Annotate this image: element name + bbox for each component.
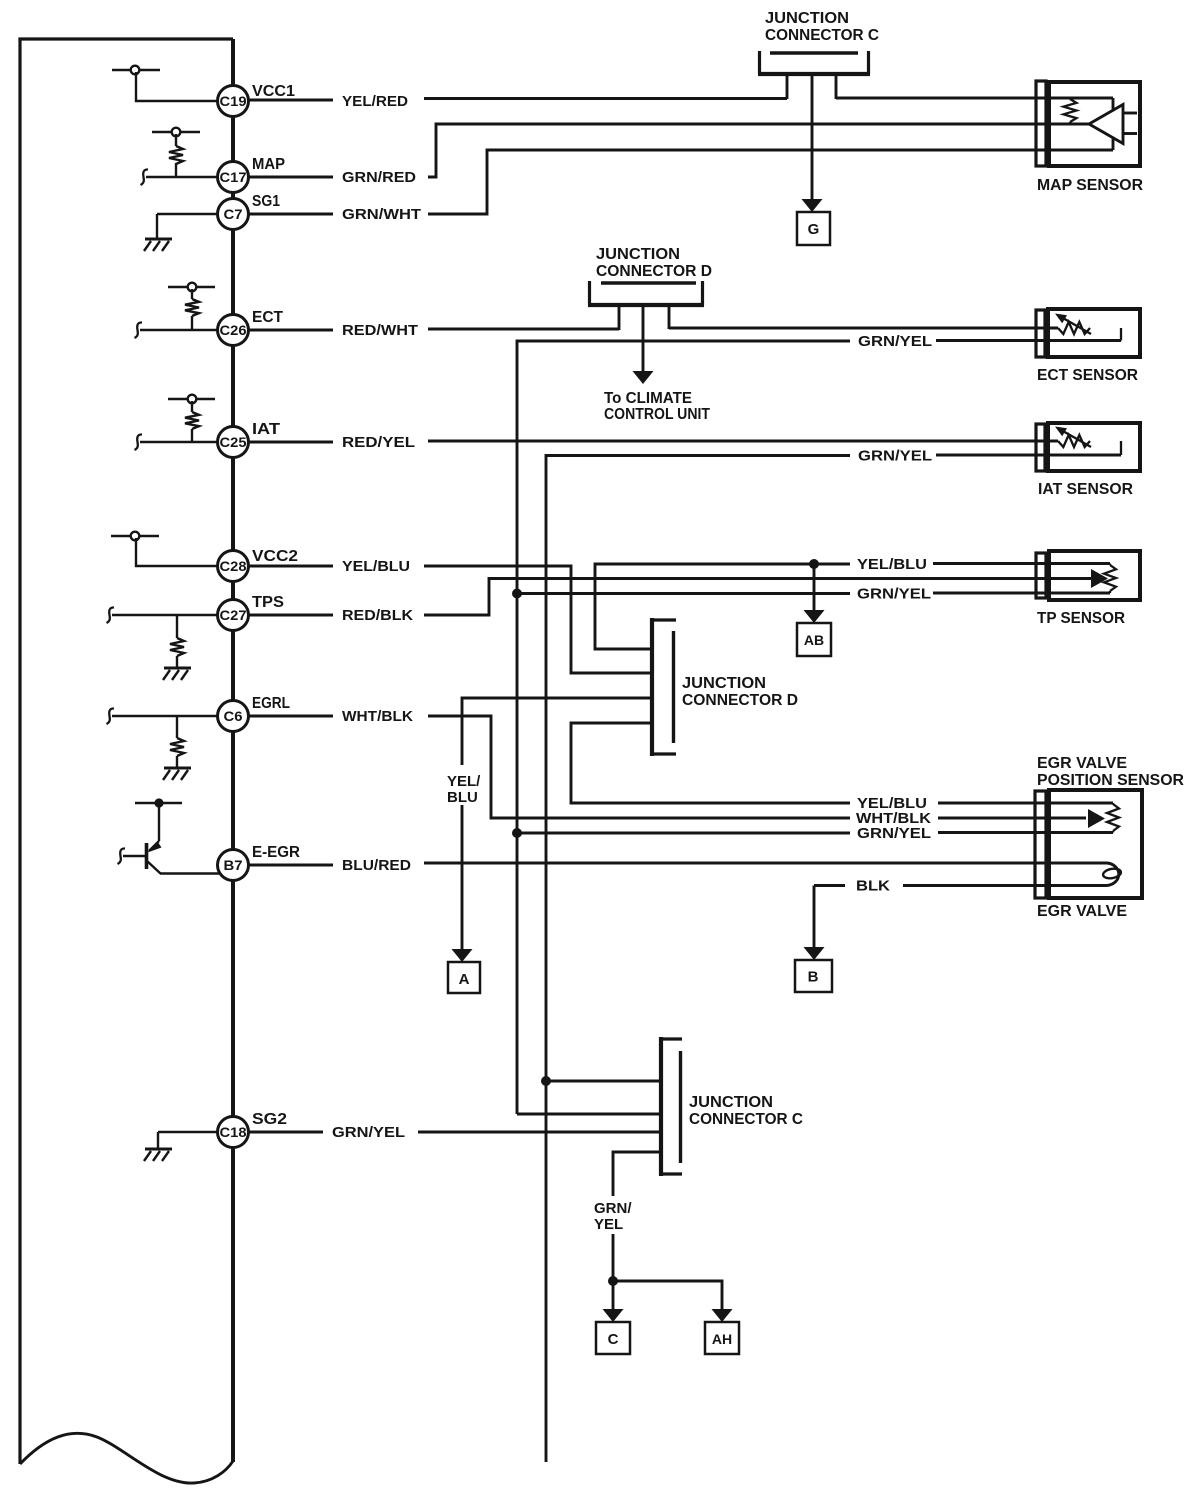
- svg-text:TPS: TPS: [252, 594, 284, 611]
- wire label RED/WHT: [342, 322, 418, 339]
- svg-text:C17: C17: [220, 170, 247, 185]
- wire hook IAT: [135, 434, 143, 450]
- TP sensor label: [1037, 610, 1125, 627]
- connector box C: [596, 1322, 630, 1354]
- svg-text:To CLIMATE: To CLIMATE: [604, 390, 692, 407]
- junction connector D (middle) symbol: [652, 618, 676, 756]
- wire Q1 collector: [158, 803, 160, 841]
- svg-text:ECT: ECT: [252, 309, 284, 326]
- svg-text:C27: C27: [220, 608, 247, 623]
- wire hook Q1 base: [118, 848, 126, 864]
- svg-text:TP SENSOR: TP SENSOR: [1037, 610, 1125, 627]
- wire GRN/YEL junction connector C to splice: [613, 1152, 661, 1196]
- thermistor in IAT sensor: [1055, 427, 1121, 456]
- wire GRN/YEL branch into junction connector C: [517, 1113, 661, 1116]
- wire GRN/YEL to ECT sensor after label: [936, 339, 1121, 342]
- pin label IAT: [252, 421, 281, 438]
- wire YEL/BLU to EGR position sensor after label: [938, 802, 1113, 805]
- wire junction connector C to G: [811, 74, 814, 199]
- svg-text:EGR VALVE: EGR VALVE: [1037, 755, 1127, 772]
- svg-text:GRN/YEL: GRN/YEL: [858, 333, 932, 350]
- junction connector D (middle) label: [682, 675, 798, 709]
- EGR position sensor wiper arrow: [1088, 809, 1105, 828]
- wire RED/BLK label to TP sensor: [424, 579, 1091, 616]
- svg-text:VCC2: VCC2: [252, 548, 298, 565]
- EGR valve box: [1049, 790, 1142, 898]
- wire SG2 to ground: [158, 1132, 217, 1149]
- svg-text:C19: C19: [220, 94, 247, 109]
- thermistor in ECT sensor: [1055, 314, 1121, 341]
- connector box A: [448, 962, 480, 993]
- svg-text:GRN/YEL: GRN/YEL: [332, 1124, 405, 1141]
- wire hook TPS: [107, 607, 115, 623]
- wire RED/YEL label to IAT sensor: [428, 440, 1058, 443]
- ECM pin bus (wire): [231, 39, 235, 1462]
- ECT sensor label: [1037, 367, 1138, 384]
- ECM pin C17: [218, 162, 249, 193]
- pin stub junction connector C right: [835, 74, 838, 99]
- svg-text:GRN/YEL: GRN/YEL: [857, 586, 931, 603]
- wire RED/YEL C25 to label: [249, 441, 334, 444]
- connector box G: [797, 212, 830, 245]
- svg-text:C: C: [608, 1331, 619, 1348]
- label GRN/YEL drop wire: [594, 1200, 632, 1233]
- EGR valve solenoid: [1102, 863, 1121, 886]
- wire label GRN/YEL right side 1: [858, 448, 932, 465]
- wire label YEL/BLU right side 2: [857, 556, 927, 573]
- wire YEL/RED junction connector C to MAP sensor: [836, 98, 1113, 111]
- wire GRN/YEL to TP sensor after label: [933, 592, 1110, 595]
- svg-text:CONNECTOR C: CONNECTOR C: [765, 27, 879, 44]
- svg-text:E-EGR: E-EGR: [252, 844, 300, 861]
- wire YEL/RED C19 to label: [249, 99, 334, 102]
- svg-text:YEL/BLU: YEL/BLU: [342, 558, 410, 575]
- wire BLU/RED B7 to label: [249, 864, 334, 867]
- svg-text:GRN/YEL: GRN/YEL: [857, 825, 931, 842]
- wire hook MAP: [141, 169, 149, 185]
- svg-text:AH: AH: [712, 1331, 732, 1347]
- arrow to AB: [804, 610, 825, 623]
- svg-text:POSITION SENSOR: POSITION SENSOR: [1037, 772, 1184, 789]
- svg-text:YEL/RED: YEL/RED: [342, 93, 408, 110]
- arrow to C: [603, 1309, 624, 1322]
- wire BLK drop to B: [813, 886, 816, 948]
- ground SG2: [144, 1149, 172, 1161]
- op-amp in MAP sensor: [1089, 105, 1123, 144]
- wire YEL/BLU drop to A (after label): [461, 805, 464, 949]
- MAP sensor label: [1037, 177, 1143, 194]
- wire label GRN/YEL right side 6: [857, 825, 931, 842]
- wire hook ECT: [135, 322, 143, 338]
- label to climate control unit: [604, 390, 710, 423]
- node YEL/BLU tap to AB: [809, 559, 819, 610]
- resistor TPS pull-down: [170, 615, 184, 668]
- wire label GRN/WHT: [342, 206, 421, 223]
- wire GRN/WHT label to MAP sensor: [428, 138, 1113, 214]
- wire label RED/BLK: [342, 607, 413, 624]
- wire GRN/YEL label to junction connector C: [418, 1131, 661, 1134]
- svg-text:SG2: SG2: [252, 1111, 287, 1128]
- wire MAP hook to C17: [146, 176, 217, 178]
- svg-text:YEL: YEL: [594, 1216, 623, 1233]
- pin label VCC2: [252, 548, 298, 565]
- ECM pin C26: [218, 315, 249, 346]
- connector box B: [795, 960, 832, 992]
- wire BLU/RED label to EGR valve: [424, 862, 1107, 865]
- svg-text:CONNECTOR C: CONNECTOR C: [689, 1111, 803, 1128]
- wire label GRN/RED: [342, 169, 416, 186]
- wire GRN/YEL to C: [612, 1281, 615, 1309]
- wire YEL/BLU junction connector D to A drop: [462, 698, 652, 765]
- arrow to B: [804, 947, 825, 960]
- svg-text:AB: AB: [804, 632, 824, 648]
- wire RED/BLK C27 to label: [249, 614, 334, 617]
- ECM pin B7: [218, 850, 249, 881]
- svg-text:EGRL: EGRL: [252, 695, 290, 712]
- pin label VCC1: [252, 83, 295, 100]
- EGR valve connector bracket: [1035, 791, 1046, 898]
- ground EGRL resistor: [163, 768, 191, 780]
- ECM pin C27: [218, 600, 249, 631]
- ECM left border and top edge (wire): [18, 39, 233, 1464]
- svg-text:IAT: IAT: [252, 421, 281, 438]
- EGR valve position sensor label: [1037, 755, 1184, 789]
- connector box AH: [705, 1322, 739, 1354]
- pin stub junction connector D right: [668, 305, 671, 329]
- VCC2 pull-up terminal: [111, 532, 159, 541]
- wire label YEL/BLU: [342, 558, 410, 575]
- wire GRN/YEL ECT sensor branch: [517, 341, 850, 1114]
- svg-text:C6: C6: [224, 709, 244, 724]
- svg-text:BLK: BLK: [856, 878, 890, 895]
- MAP sensor connector bracket: [1036, 81, 1046, 166]
- transistor Q1 collector terminal: [135, 798, 182, 807]
- svg-text:BLU/RED: BLU/RED: [342, 857, 411, 874]
- connector box AB: [797, 623, 831, 656]
- junction connector C (top) label: [765, 10, 879, 44]
- svg-text:MAP: MAP: [252, 156, 285, 173]
- resistor EGRL pull-down: [170, 716, 184, 768]
- wire label BLK right side 7: [856, 878, 890, 895]
- junction connector D (top) label: [596, 246, 712, 280]
- wire label GRN/YEL right side 0: [858, 333, 932, 350]
- wire BLK EGR valve to label: [814, 884, 845, 887]
- resistor in MAP sensor: [1064, 98, 1077, 124]
- potentiometer in TP sensor: [1104, 564, 1116, 594]
- svg-text:MAP SENSOR: MAP SENSOR: [1037, 177, 1143, 194]
- pin stub junction connector C left: [786, 74, 789, 99]
- wire label WHT/BLK: [342, 708, 413, 725]
- ECM pin C7: [218, 199, 249, 230]
- svg-text:EGR VALVE: EGR VALVE: [1037, 903, 1127, 920]
- arrow to G: [802, 199, 823, 212]
- wire label RED/YEL: [342, 434, 415, 451]
- pin label TPS: [252, 594, 284, 611]
- wire label GRN/YEL: [332, 1124, 405, 1141]
- svg-text:RED/WHT: RED/WHT: [342, 322, 418, 339]
- pin stub junction connector D left: [618, 305, 621, 330]
- svg-text:GRN/YEL: GRN/YEL: [858, 448, 932, 465]
- svg-text:C28: C28: [220, 559, 248, 574]
- svg-text:JUNCTION: JUNCTION: [765, 10, 849, 27]
- wire GRN/YEL splice drop: [612, 1234, 615, 1281]
- wire label YEL/RED: [342, 93, 408, 110]
- wire RED/WHT label to junction connector D: [428, 328, 619, 331]
- svg-text:A: A: [459, 971, 470, 988]
- wire RED/WHT junction connector D to ECT sensor: [669, 327, 1058, 330]
- svg-text:JUNCTION: JUNCTION: [596, 246, 680, 263]
- junction connector C (top) symbol: [758, 51, 870, 74]
- junction connector C (bottom) label: [689, 1094, 803, 1128]
- ground TPS resistor: [163, 668, 191, 680]
- TP sensor connector bracket: [1036, 553, 1046, 598]
- wire label GRN/YEL right side 3: [857, 586, 931, 603]
- node GRN/YEL split to C and AH: [608, 1276, 618, 1286]
- C17 pull-up terminal: [152, 128, 200, 137]
- pin label ECT: [252, 309, 284, 326]
- svg-text:C26: C26: [220, 323, 248, 338]
- svg-text:C25: C25: [220, 435, 248, 450]
- wire VCC2 terminal to C28: [136, 538, 217, 566]
- wire GRN/RED label to MAP sensor: [428, 124, 1089, 177]
- svg-text:GRN/WHT: GRN/WHT: [342, 206, 421, 223]
- svg-text:RED/BLK: RED/BLK: [342, 607, 413, 624]
- wire ECT hook to C26: [140, 329, 217, 331]
- wire label BLU/RED: [342, 857, 411, 874]
- ECM torn bottom edge (wire): [20, 1433, 233, 1483]
- MAP sensor box: [1049, 82, 1140, 166]
- svg-text:SG1: SG1: [252, 193, 280, 210]
- wire YEL/RED label to junction connector C: [424, 97, 787, 100]
- ECM pin C28: [218, 551, 249, 582]
- label YEL/BLU vertical wire: [447, 773, 481, 806]
- potentiometer in EGR position sensor: [1107, 803, 1119, 833]
- pin label EGRL: [252, 695, 290, 712]
- resistor ECT pull-up: [185, 289, 199, 329]
- TP sensor box: [1049, 551, 1140, 600]
- resistor MAP pull-up: [169, 134, 183, 176]
- wire GRN/YEL to EGR position sensor after label: [938, 831, 1113, 834]
- svg-text:JUNCTION: JUNCTION: [682, 675, 766, 692]
- svg-text:RED/YEL: RED/YEL: [342, 434, 415, 451]
- wire TPS hook to C27: [112, 614, 217, 616]
- TP sensor wiper arrow: [1091, 569, 1108, 588]
- node GRN/YEL join to junction connector C: [541, 1076, 661, 1086]
- wire RED/WHT C26 to label: [249, 329, 334, 332]
- svg-text:GRN/RED: GRN/RED: [342, 169, 416, 186]
- svg-text:B7: B7: [224, 858, 243, 873]
- svg-text:C18: C18: [220, 1125, 248, 1140]
- svg-text:CONNECTOR D: CONNECTOR D: [596, 263, 712, 280]
- pin label SG1: [252, 193, 280, 210]
- svg-text:JUNCTION: JUNCTION: [689, 1094, 773, 1111]
- wire YEL/BLU C28 to label: [249, 565, 334, 568]
- wire label YEL/BLU right side 4: [857, 795, 927, 812]
- MAP sensor output stubs: [1123, 113, 1137, 134]
- VCC1 pull-up terminal: [112, 66, 160, 75]
- svg-text:CONTROL UNIT: CONTROL UNIT: [604, 406, 710, 423]
- pin label MAP: [252, 156, 285, 173]
- wire GRN/WHT C7 to label: [249, 213, 334, 216]
- wire YEL/BLU to TP sensor after label: [933, 562, 1110, 565]
- wire GRN/RED C17 to label: [249, 176, 334, 179]
- arrow to AH: [712, 1309, 733, 1322]
- wire YEL/BLU junction connector D to EGR position sensor: [571, 723, 850, 803]
- wire GRN/YEL tap to EGR position sensor: [512, 828, 850, 838]
- wire GRN/YEL to IAT sensor after label: [936, 454, 1121, 457]
- wire SG1 to ground: [157, 214, 217, 239]
- wire YEL/BLU label to junction connector D: [424, 566, 652, 673]
- wire label WHT/BLK right side 5: [856, 810, 931, 827]
- junction connector D (top) symbol: [588, 281, 704, 305]
- svg-text:GRN/: GRN/: [594, 1200, 632, 1217]
- wire WHT/BLK to EGR position sensor after label: [938, 817, 1086, 820]
- resistor IAT pull-up: [185, 401, 199, 441]
- ECT sensor connector bracket: [1036, 310, 1045, 357]
- wire GRN/YEL tap to TP sensor: [512, 589, 850, 599]
- wire YEL/BLU junction connector D to TP sensor: [595, 564, 850, 649]
- C26 pull-up terminal: [168, 283, 215, 292]
- svg-text:VCC1: VCC1: [252, 83, 295, 100]
- arrow to climate control unit: [633, 371, 654, 384]
- svg-text:YEL/: YEL/: [447, 773, 481, 790]
- EGR valve label: [1037, 903, 1127, 920]
- svg-text:ECT SENSOR: ECT SENSOR: [1037, 367, 1138, 384]
- wire Q1 emitter to B7: [160, 872, 220, 874]
- ECT sensor box: [1048, 309, 1140, 357]
- ECM pin C18: [218, 1117, 249, 1148]
- wire GRN/YEL to AH: [613, 1281, 722, 1309]
- IAT sensor box: [1048, 423, 1140, 471]
- junction connector C (bottom) symbol: [661, 1037, 682, 1176]
- svg-text:IAT SENSOR: IAT SENSOR: [1038, 481, 1133, 498]
- wire EGRL hook to C6: [112, 715, 217, 717]
- ground SG1: [144, 239, 172, 251]
- IAT sensor label: [1038, 481, 1133, 498]
- ECM pin C19: [218, 86, 249, 117]
- svg-text:WHT/BLK: WHT/BLK: [342, 708, 413, 725]
- svg-text:C7: C7: [224, 207, 243, 222]
- wire VCC1 terminal to C19: [136, 72, 217, 101]
- wire BLK after label into EGR valve: [903, 884, 1107, 887]
- pin label E-EGR: [252, 844, 300, 861]
- transistor Q1: [123, 841, 162, 874]
- IAT sensor connector bracket: [1036, 424, 1045, 471]
- svg-text:B: B: [808, 969, 819, 986]
- wire WHT/BLK C6 to label: [249, 715, 334, 718]
- pin label SG2: [252, 1111, 287, 1128]
- wire IAT hook to C25: [140, 441, 217, 443]
- svg-text:G: G: [808, 221, 820, 238]
- wire hook EGRL: [107, 708, 115, 724]
- ECM pin C25: [218, 427, 249, 458]
- ECM pin C6: [218, 701, 249, 732]
- svg-text:YEL/BLU: YEL/BLU: [857, 556, 927, 573]
- svg-text:CONNECTOR D: CONNECTOR D: [682, 692, 798, 709]
- wire GRN/YEL IAT sensor branch: [546, 456, 850, 1463]
- arrow to A: [452, 949, 473, 962]
- wire WHT/BLK label to EGR position sensor: [428, 716, 850, 818]
- svg-text:BLU: BLU: [447, 789, 478, 806]
- wire GRN/YEL C18 to label: [249, 1131, 324, 1134]
- wire junction connector D to climate control: [642, 305, 645, 371]
- C25 pull-up terminal: [168, 395, 215, 404]
